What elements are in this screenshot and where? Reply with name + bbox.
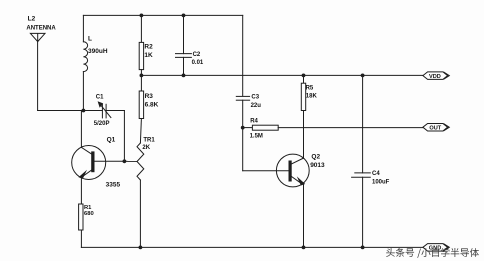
port VDD <box>423 72 449 80</box>
wire top rail <box>83 14 242 16</box>
capacitor C4 <box>352 75 371 247</box>
trimmer TR1 <box>124 143 143 247</box>
svg-text:100uF: 100uF <box>372 180 390 186</box>
svg-text:L2: L2 <box>28 16 36 23</box>
svg-text:6.8K: 6.8K <box>145 102 159 109</box>
svg-text:390uH: 390uH <box>88 48 108 55</box>
wire C3 node down <box>242 128 244 171</box>
svg-text:680: 680 <box>84 211 94 217</box>
svg-text:TR1: TR1 <box>143 138 155 144</box>
resistor R5 <box>301 75 305 158</box>
svg-text:9013: 9013 <box>310 162 325 169</box>
svg-text:0.01: 0.01 <box>192 60 204 66</box>
svg-text:R2: R2 <box>144 44 153 51</box>
svg-text:1K: 1K <box>144 52 153 59</box>
node VDD rail C2 junction <box>182 74 186 78</box>
node ground Q2 emitter junction <box>302 246 306 250</box>
node ground TR1 junction <box>139 246 143 250</box>
svg-text:R4: R4 <box>250 119 258 125</box>
wire Q1 collector up to node A <box>80 111 82 148</box>
capacitor C2 <box>176 15 192 75</box>
svg-text:C4: C4 <box>372 171 380 177</box>
node VDD rail R5 junction <box>302 74 306 78</box>
node top rail C2 junction <box>182 14 186 18</box>
node A junction (L / antenna / C1 / Q1 collector) <box>82 109 86 113</box>
svg-text:C1: C1 <box>96 95 104 101</box>
svg-text:L: L <box>88 35 92 42</box>
wire OUT line <box>278 127 423 129</box>
svg-text:5/20P: 5/20P <box>94 121 110 127</box>
capacitor C3 <box>236 96 249 127</box>
svg-text:18K: 18K <box>306 94 318 100</box>
svg-text:C2: C2 <box>193 52 201 58</box>
inductor L 390uH <box>83 15 87 110</box>
svg-text:VDD: VDD <box>429 74 441 80</box>
svg-text:R5: R5 <box>306 85 314 91</box>
svg-text:2K: 2K <box>142 145 150 151</box>
svg-text:3355: 3355 <box>106 181 121 188</box>
antenna L2 <box>30 33 45 41</box>
resistor R1 <box>79 204 83 247</box>
wire corner down to base node <box>123 111 125 162</box>
resistor R4 <box>243 125 278 130</box>
svg-text:ANTENNA: ANTENNA <box>26 26 56 32</box>
svg-text:1.5M: 1.5M <box>250 133 263 139</box>
wire Q2 emitter down <box>303 184 305 248</box>
watermark <box>386 248 479 258</box>
svg-text:R3: R3 <box>145 93 154 100</box>
wire antenna stem down <box>37 42 39 111</box>
wire node A to C1 <box>83 110 102 112</box>
resistor R2 <box>139 15 143 75</box>
svg-text:Q1: Q1 <box>107 136 116 143</box>
wire Q1 emitter down to R1 <box>80 178 82 204</box>
wire to Q2 base <box>243 170 289 172</box>
node ground C4 junction <box>361 246 365 250</box>
svg-text:Q2: Q2 <box>311 153 320 160</box>
node VDD rail C4 junction <box>361 74 365 78</box>
capacitor C1 (variable) <box>98 101 111 118</box>
transistor Q1 <box>72 146 125 180</box>
port OUT <box>423 124 449 132</box>
wire C1 to corner <box>106 110 124 112</box>
wire top rail right drop <box>242 15 244 96</box>
port GND <box>423 244 449 252</box>
resistor R3 <box>139 75 143 143</box>
node top rail R2 junction <box>140 14 144 18</box>
wire ground rail <box>81 246 423 248</box>
node R4/C3 junction <box>241 126 245 130</box>
svg-text:OUT: OUT <box>429 126 441 132</box>
transistor Q2 <box>276 154 309 187</box>
wire antenna to node A <box>38 110 84 112</box>
svg-text:22u: 22u <box>251 103 262 109</box>
node VDD rail R2/R3 junction <box>140 74 144 78</box>
wire VDD rail <box>141 74 423 76</box>
node B junction (C1 / Q1 base / TR1 wiper) <box>123 159 127 163</box>
svg-text:C3: C3 <box>251 95 259 101</box>
